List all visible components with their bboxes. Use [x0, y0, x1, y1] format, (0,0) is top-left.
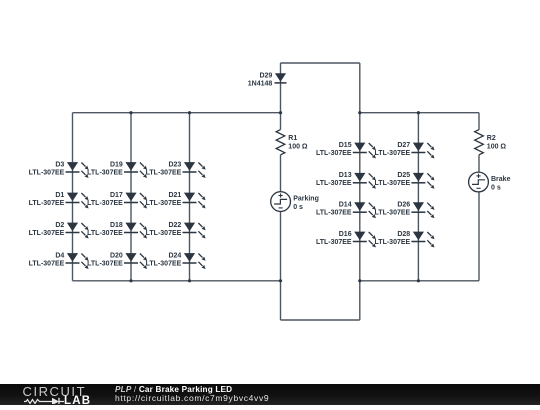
svg-text:100 Ω: 100 Ω — [288, 144, 308, 151]
LED D16 — [316, 231, 376, 248]
svg-text:D1: D1 — [55, 192, 64, 199]
svg-text:LTL-307EE: LTL-307EE — [146, 169, 182, 176]
svg-text:D28: D28 — [397, 231, 410, 238]
LED D15 — [316, 142, 376, 159]
LED D3 — [29, 161, 89, 178]
node junction 1 — [129, 111, 132, 114]
LED D26 — [375, 202, 435, 219]
svg-text:D27: D27 — [397, 142, 410, 149]
svg-text:Brake: Brake — [491, 176, 511, 183]
wire Brake-to-bottom — [478, 192, 480, 281]
LED D24 — [146, 252, 206, 269]
wire centre vertical upper (through D29) — [280, 63, 282, 130]
svg-text:0 s: 0 s — [491, 185, 501, 192]
node junction 6 — [129, 279, 132, 282]
node junction 3 — [279, 111, 282, 114]
svg-text:D20: D20 — [110, 252, 123, 259]
svg-text:LTL-307EE: LTL-307EE — [29, 169, 65, 176]
node junction 4 — [358, 111, 361, 114]
svg-text:LTL-307EE: LTL-307EE — [375, 180, 411, 187]
wire bottom of centre box — [281, 319, 360, 321]
LED D27 — [375, 142, 435, 159]
footer text — [115, 385, 269, 404]
svg-text:LAB: LAB — [64, 395, 91, 404]
node junction 7 — [188, 279, 191, 282]
diode D29 — [248, 72, 287, 87]
svg-text:LTL-307EE: LTL-307EE — [375, 150, 411, 157]
svg-text:LTL-307EE: LTL-307EE — [29, 260, 65, 267]
svg-text:1N4148: 1N4148 — [248, 80, 273, 87]
wire left LED column 2 — [130, 113, 132, 281]
svg-text:LTL-307EE: LTL-307EE — [87, 260, 123, 267]
svg-text:LTL-307EE: LTL-307EE — [146, 260, 182, 267]
wire centre vertical R1-to-Parking — [280, 155, 282, 192]
svg-text:LTL-307EE: LTL-307EE — [316, 180, 352, 187]
node junction 5 — [417, 111, 420, 114]
svg-text:D21: D21 — [168, 192, 181, 199]
svg-text:D13: D13 — [339, 172, 352, 179]
svg-text:LTL-307EE: LTL-307EE — [87, 230, 123, 237]
LED D17 — [87, 192, 147, 209]
svg-text:LTL-307EE: LTL-307EE — [29, 200, 65, 207]
resistor R2 — [475, 130, 507, 155]
LED D25 — [375, 172, 435, 189]
svg-text:LTL-307EE: LTL-307EE — [375, 239, 411, 246]
svg-text:D14: D14 — [339, 202, 352, 209]
wire top bus right section — [360, 112, 479, 114]
wire bottom bus right section — [360, 280, 479, 282]
LED D22 — [146, 222, 206, 239]
LED D13 — [316, 172, 376, 189]
resistor R1 — [276, 130, 308, 155]
wire right LED column 1 / centre box right — [359, 63, 361, 320]
svg-text:D3: D3 — [55, 161, 64, 168]
LED D21 — [146, 192, 206, 209]
node junction 9 — [358, 279, 361, 282]
svg-text:D4: D4 — [55, 252, 64, 259]
wire right LED column 2 — [417, 113, 419, 281]
svg-text:LTL-307EE: LTL-307EE — [87, 200, 123, 207]
wire top of centre box — [281, 62, 360, 64]
svg-text:LTL-307EE: LTL-307EE — [316, 239, 352, 246]
svg-text:LTL-307EE: LTL-307EE — [316, 150, 352, 157]
svg-text:LTL-307EE: LTL-307EE — [316, 210, 352, 217]
svg-text:LTL-307EE: LTL-307EE — [87, 169, 123, 176]
wire centre vertical Parking-to-bottom — [280, 212, 282, 321]
wire top bus left section — [73, 112, 281, 114]
CircuitLab logo — [22, 385, 94, 404]
node junction 10 — [417, 279, 420, 282]
node junction 8 — [279, 279, 282, 282]
LED D1 — [29, 192, 89, 209]
svg-text:LTL-307EE: LTL-307EE — [29, 230, 65, 237]
svg-text:R1: R1 — [288, 135, 297, 142]
LED D4 — [29, 252, 89, 269]
svg-text:D2: D2 — [55, 222, 64, 229]
wire R2-to-Brake — [478, 155, 480, 172]
wire left LED column 1 — [72, 113, 74, 281]
svg-text:D29: D29 — [259, 72, 272, 79]
svg-text:D17: D17 — [110, 192, 123, 199]
voltage source V1 Parking — [271, 192, 319, 212]
svg-text:R2: R2 — [487, 135, 496, 142]
svg-text:D19: D19 — [110, 161, 123, 168]
svg-text:0 s: 0 s — [293, 204, 303, 211]
LED D23 — [146, 161, 206, 178]
svg-text:D15: D15 — [339, 142, 352, 149]
svg-text:LTL-307EE: LTL-307EE — [146, 200, 182, 207]
svg-text:LTL-307EE: LTL-307EE — [146, 230, 182, 237]
svg-text:LTL-307EE: LTL-307EE — [375, 210, 411, 217]
LED D20 — [87, 252, 147, 269]
svg-text:D23: D23 — [168, 161, 181, 168]
svg-text:100 Ω: 100 Ω — [487, 144, 507, 151]
wire R2 column top — [478, 113, 480, 130]
svg-text:D25: D25 — [397, 172, 410, 179]
LED D2 — [29, 222, 89, 239]
svg-text:Parking: Parking — [293, 196, 319, 203]
node junction 2 — [188, 111, 191, 114]
LED D28 — [375, 231, 435, 248]
voltage source V2 Brake — [469, 172, 511, 192]
LED D19 — [87, 161, 147, 178]
svg-text:D24: D24 — [168, 252, 181, 259]
svg-text:D16: D16 — [339, 231, 352, 238]
LED D18 — [87, 222, 147, 239]
svg-text:D26: D26 — [397, 202, 410, 209]
wire bottom bus left section — [73, 280, 281, 282]
footer bar — [0, 384, 540, 405]
svg-text:D18: D18 — [110, 222, 123, 229]
LED D14 — [316, 202, 376, 219]
wire left LED column 3 — [189, 113, 191, 281]
svg-text:D22: D22 — [168, 222, 181, 229]
